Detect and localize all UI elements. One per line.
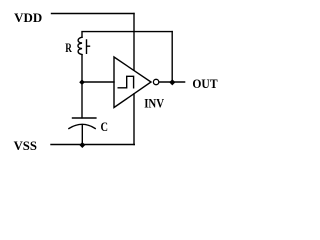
svg-text:VSS: VSS xyxy=(14,139,37,153)
svg-text:C: C xyxy=(101,120,109,134)
wire capacitor bottom to VSS rail xyxy=(81,125,83,145)
wire feedback vertical drop to output node xyxy=(171,32,173,82)
op-amp U1 schmitt inverter triangle xyxy=(114,57,151,108)
wire feedback horizontal (output node to resistor top) xyxy=(82,32,172,38)
svg-text:OUT: OUT xyxy=(192,77,218,91)
svg-text:VDD: VDD xyxy=(14,11,42,25)
wire VDD rail xyxy=(52,13,135,15)
capacitor C top plate xyxy=(73,117,96,119)
svg-text:INV: INV xyxy=(144,96,165,110)
resistor R tap bar with tick xyxy=(87,40,90,53)
U1 hysteresis symbol xyxy=(118,76,133,88)
node A input junction dot xyxy=(79,79,85,85)
wire VSS rail xyxy=(51,144,134,146)
node OUT junction dot xyxy=(169,79,175,85)
capacitor C curved bottom plate xyxy=(69,124,95,128)
svg-text:R: R xyxy=(65,41,72,55)
wire resistor bottom to capacitor top xyxy=(81,55,83,118)
wire VDD supply lead to inverter top xyxy=(133,14,135,71)
wire inverter bottom to VSS rail xyxy=(133,94,135,145)
resistor R squiggle xyxy=(78,37,82,54)
U1 output inversion bubble xyxy=(153,79,158,84)
node VSS junction dot xyxy=(79,142,85,148)
wire inverter input xyxy=(82,81,114,83)
wire inverter output xyxy=(159,81,184,83)
